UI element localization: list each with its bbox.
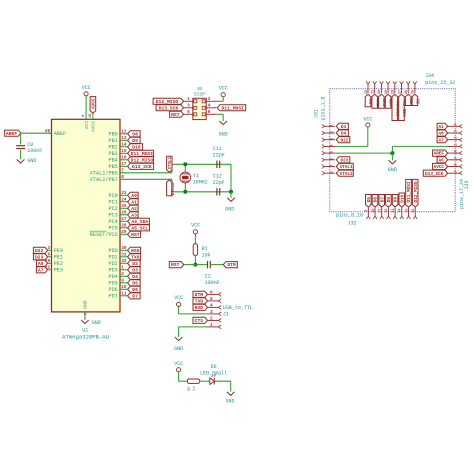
svg-text:XTAL2: XTAL2 (169, 183, 173, 196)
svg-text:A2: A2 (415, 98, 420, 104)
svg-text:7: 7 (331, 164, 335, 166)
svg-text:11: 11 (379, 209, 383, 213)
svg-text:31: 31 (121, 253, 127, 258)
svg-text:C2: C2 (205, 274, 211, 280)
svg-text:pins_1_8: pins_1_8 (321, 96, 327, 120)
svg-text:PE1: PE1 (54, 255, 63, 261)
svg-text:PC2: PC2 (108, 206, 117, 212)
svg-text:11: 11 (121, 292, 127, 297)
svg-text:30: 30 (378, 90, 382, 94)
svg-text:VCC: VCC (191, 223, 200, 229)
svg-text:J31: J31 (314, 109, 320, 118)
svg-text:24: 24 (121, 198, 127, 203)
svg-text:DTR: DTR (195, 292, 204, 298)
svg-text:XTAL1/PB6: XTAL1/PB6 (90, 171, 118, 177)
svg-text:PE2: PE2 (54, 261, 63, 267)
svg-text:2: 2 (210, 315, 213, 321)
svg-text:A0: A0 (131, 193, 137, 199)
svg-text:D10: D10 (132, 144, 141, 150)
svg-text:100nF: 100nF (27, 148, 42, 154)
svg-text:26: 26 (121, 211, 127, 216)
svg-text:AREF: AREF (434, 152, 445, 157)
svg-text:5: 5 (187, 109, 190, 115)
svg-text:C0: C0 (27, 142, 33, 148)
svg-text:D13_SCK: D13_SCK (425, 172, 443, 177)
svg-text:13: 13 (392, 209, 396, 213)
svg-text:ICSP: ICSP (194, 92, 206, 98)
svg-text:D12_MISO: D12_MISO (131, 157, 154, 163)
svg-text:D0: D0 (211, 364, 217, 370)
svg-text:D4: D4 (132, 274, 138, 280)
svg-text:13: 13 (121, 136, 127, 141)
svg-text:PD3: PD3 (108, 268, 117, 274)
svg-text:25: 25 (412, 90, 416, 94)
svg-text:VCC: VCC (174, 295, 183, 301)
svg-text:AVCC: AVCC (434, 165, 445, 170)
svg-text:RST: RST (171, 112, 180, 118)
svg-text:26: 26 (405, 90, 409, 94)
svg-text:GND: GND (219, 132, 228, 138)
svg-text:GND: GND (225, 399, 234, 405)
svg-text:14: 14 (399, 209, 403, 213)
svg-text:D8: D8 (387, 197, 392, 203)
svg-text:A0: A0 (439, 132, 445, 137)
svg-text:D22: D22 (341, 138, 349, 143)
svg-text:32: 32 (121, 259, 127, 264)
svg-text:pins_8_16: pins_8_16 (336, 213, 363, 219)
svg-text:2: 2 (208, 96, 211, 102)
svg-text:D3: D3 (132, 267, 138, 273)
svg-text:GND: GND (27, 158, 36, 164)
svg-text:D5: D5 (367, 197, 372, 203)
svg-text:PD6: PD6 (108, 287, 117, 293)
svg-text:R1: R1 (202, 246, 208, 252)
svg-text:10k: 10k (202, 253, 211, 259)
svg-text:D9: D9 (132, 138, 138, 144)
svg-text:PC0: PC0 (108, 193, 117, 199)
svg-text:A5_SCL: A5_SCL (131, 225, 148, 231)
svg-text:AREF: AREF (54, 131, 66, 137)
svg-text:27: 27 (398, 90, 402, 94)
svg-text:1: 1 (331, 124, 335, 126)
svg-text:A4_SDA: A4_SDA (131, 219, 148, 225)
svg-text:XTAL1: XTAL1 (340, 165, 353, 170)
svg-text:PB0: PB0 (108, 132, 117, 138)
svg-text:C11: C11 (213, 146, 222, 152)
svg-text:28: 28 (392, 90, 396, 94)
svg-text:1k: 1k (192, 385, 197, 390)
svg-text:16MHz: 16MHz (193, 179, 208, 185)
svg-text:Y1: Y1 (193, 173, 199, 179)
svg-text:1: 1 (121, 266, 124, 271)
svg-text:23: 23 (121, 191, 127, 196)
svg-text:A7: A7 (439, 138, 445, 143)
svg-text:XTAL2/PB7: XTAL2/PB7 (90, 177, 118, 183)
svg-text:RST: RST (171, 262, 180, 268)
svg-text:LED_Small: LED_Small (200, 370, 227, 376)
svg-text:21: 21 (455, 143, 459, 147)
svg-text:5: 5 (85, 313, 89, 315)
svg-text:4: 4 (210, 302, 213, 308)
svg-text:18: 18 (455, 163, 459, 167)
svg-text:RXD: RXD (195, 305, 204, 311)
svg-text:AVCC: AVCC (91, 121, 97, 133)
svg-text:J32: J32 (348, 221, 357, 227)
svg-text:14: 14 (121, 143, 127, 148)
svg-text:1: 1 (210, 322, 213, 328)
svg-text:PB3: PB3 (108, 151, 117, 157)
svg-text:6: 6 (210, 289, 213, 295)
svg-text:PC3: PC3 (108, 213, 117, 219)
svg-text:D5: D5 (132, 280, 138, 286)
svg-text:GND: GND (92, 320, 101, 326)
svg-text:PC4: PC4 (108, 219, 117, 225)
svg-text:3: 3 (187, 103, 190, 109)
svg-text:28: 28 (121, 224, 127, 229)
svg-text:TX0: TX0 (131, 254, 140, 260)
svg-text:D4: D4 (341, 132, 347, 137)
svg-text:XTAL1: XTAL1 (169, 156, 173, 169)
svg-text:RESET/PC6: RESET/PC6 (90, 232, 118, 238)
svg-text:D2: D2 (132, 261, 138, 267)
svg-text:D6: D6 (132, 287, 138, 293)
svg-text:29: 29 (385, 90, 389, 94)
svg-text:VCC: VCC (363, 116, 372, 122)
svg-text:D23: D23 (35, 254, 44, 260)
svg-text:PC1: PC1 (108, 200, 117, 206)
svg-text:15: 15 (405, 209, 409, 213)
svg-text:17: 17 (455, 170, 459, 174)
svg-text:6: 6 (331, 158, 335, 160)
svg-text:VCC: VCC (174, 361, 183, 367)
svg-text:PC5: PC5 (108, 226, 117, 232)
svg-text:VCC: VCC (82, 85, 91, 91)
svg-text:D13_SCK: D13_SCK (132, 164, 152, 170)
svg-text:pins_25_32: pins_25_32 (425, 80, 455, 86)
svg-text:RX0: RX0 (131, 248, 140, 254)
svg-text:22: 22 (455, 137, 459, 141)
svg-text:GND: GND (388, 167, 397, 173)
svg-text:D23: D23 (341, 158, 349, 163)
svg-text:10: 10 (372, 209, 376, 213)
svg-text:8: 8 (121, 175, 124, 180)
svg-text:PD2: PD2 (108, 261, 117, 267)
svg-text:29: 29 (121, 230, 127, 235)
svg-text:PE0: PE0 (54, 248, 63, 254)
svg-text:A1: A1 (439, 125, 445, 130)
svg-text:9: 9 (365, 210, 369, 212)
svg-text:A6: A6 (439, 158, 445, 163)
svg-text:D11_MOSI: D11_MOSI (221, 105, 244, 111)
svg-text:2: 2 (121, 272, 124, 277)
svg-text:PD7: PD7 (108, 294, 117, 300)
svg-text:100nF: 100nF (205, 280, 220, 286)
svg-text:CTS: CTS (195, 318, 204, 324)
svg-text:D6: D6 (374, 197, 379, 203)
svg-text:2: 2 (331, 131, 335, 133)
svg-text:A3: A3 (131, 212, 137, 218)
svg-text:16: 16 (412, 209, 416, 213)
svg-text:1: 1 (187, 96, 190, 102)
svg-text:25: 25 (121, 204, 127, 209)
svg-text:J33: J33 (464, 180, 470, 189)
svg-text:J0: J0 (196, 86, 202, 92)
svg-text:PB2: PB2 (108, 145, 117, 151)
svg-text:22pF: 22pF (213, 180, 225, 186)
svg-text:23: 23 (455, 130, 459, 134)
svg-text:A1: A1 (131, 199, 137, 205)
svg-text:AVCC: AVCC (92, 98, 97, 109)
svg-text:D3: D3 (341, 125, 347, 130)
svg-text:30: 30 (121, 246, 127, 251)
svg-text:D13_SCK: D13_SCK (159, 105, 179, 111)
svg-text:PB1: PB1 (108, 138, 117, 144)
svg-text:3: 3 (210, 309, 213, 315)
svg-text:A7: A7 (38, 267, 44, 273)
svg-text:GND: GND (83, 300, 89, 309)
svg-text:GND: GND (174, 346, 183, 352)
svg-text:VCC: VCC (84, 121, 90, 130)
svg-text:18: 18 (89, 114, 93, 118)
svg-text:GND: GND (225, 207, 234, 213)
svg-text:DTR: DTR (227, 262, 236, 268)
svg-text:32: 32 (365, 90, 369, 94)
svg-text:D7: D7 (380, 197, 385, 203)
svg-text:PB4: PB4 (108, 158, 117, 164)
svg-text:J34: J34 (425, 73, 434, 79)
svg-text:R0: R0 (188, 386, 192, 391)
svg-text:PB5: PB5 (108, 164, 117, 170)
svg-text:AREF: AREF (6, 131, 17, 137)
svg-text:15: 15 (121, 149, 127, 154)
svg-text:4: 4 (331, 144, 335, 146)
svg-text:9: 9 (121, 279, 124, 284)
svg-text:12: 12 (121, 130, 127, 135)
svg-text:ATmega328PB-AU: ATmega328PB-AU (62, 334, 109, 341)
svg-text:PD4: PD4 (108, 274, 117, 280)
svg-text:A6: A6 (38, 261, 44, 267)
svg-text:J1: J1 (223, 312, 229, 318)
svg-text:27: 27 (121, 217, 127, 222)
svg-text:7: 7 (121, 169, 124, 174)
svg-text:PD5: PD5 (108, 281, 117, 287)
svg-text:16: 16 (121, 156, 127, 161)
svg-text:D11_MOSI: D11_MOSI (407, 181, 412, 202)
svg-text:D9: D9 (394, 197, 399, 203)
svg-text:D11_MOSI: D11_MOSI (131, 151, 154, 157)
svg-text:PE3: PE3 (54, 268, 63, 274)
svg-text:24: 24 (455, 123, 459, 127)
svg-text:D10: D10 (400, 194, 405, 202)
svg-text:8: 8 (331, 171, 335, 173)
svg-text:TXD: TXD (195, 299, 204, 305)
svg-text:D12_MISO: D12_MISO (156, 99, 179, 105)
svg-text:D8: D8 (132, 131, 138, 137)
svg-text:10: 10 (121, 285, 127, 290)
svg-text:A2: A2 (131, 206, 137, 212)
svg-text:19: 19 (455, 157, 459, 161)
svg-text:20: 20 (455, 150, 459, 154)
svg-text:D7: D7 (132, 293, 138, 299)
svg-text:RST: RST (131, 232, 140, 238)
svg-text:PD1: PD1 (108, 255, 117, 261)
svg-text:4: 4 (208, 103, 211, 109)
svg-text:C12: C12 (213, 174, 222, 180)
svg-text:3: 3 (331, 138, 335, 140)
svg-text:XTAL2: XTAL2 (340, 172, 353, 177)
svg-text:6: 6 (208, 109, 211, 115)
svg-text:USB_to_TTL: USB_to_TTL (223, 305, 253, 311)
svg-text:5: 5 (331, 151, 335, 153)
svg-text:31: 31 (372, 90, 376, 94)
svg-text:12: 12 (385, 209, 389, 213)
svg-text:5: 5 (210, 296, 213, 302)
svg-text:D22: D22 (35, 248, 44, 254)
svg-text:PD0: PD0 (108, 248, 117, 254)
svg-text:D12_MISO: D12_MISO (414, 181, 419, 202)
svg-text:17: 17 (121, 162, 127, 167)
svg-text:VCC: VCC (219, 86, 228, 92)
svg-text:22pF: 22pF (213, 152, 225, 158)
